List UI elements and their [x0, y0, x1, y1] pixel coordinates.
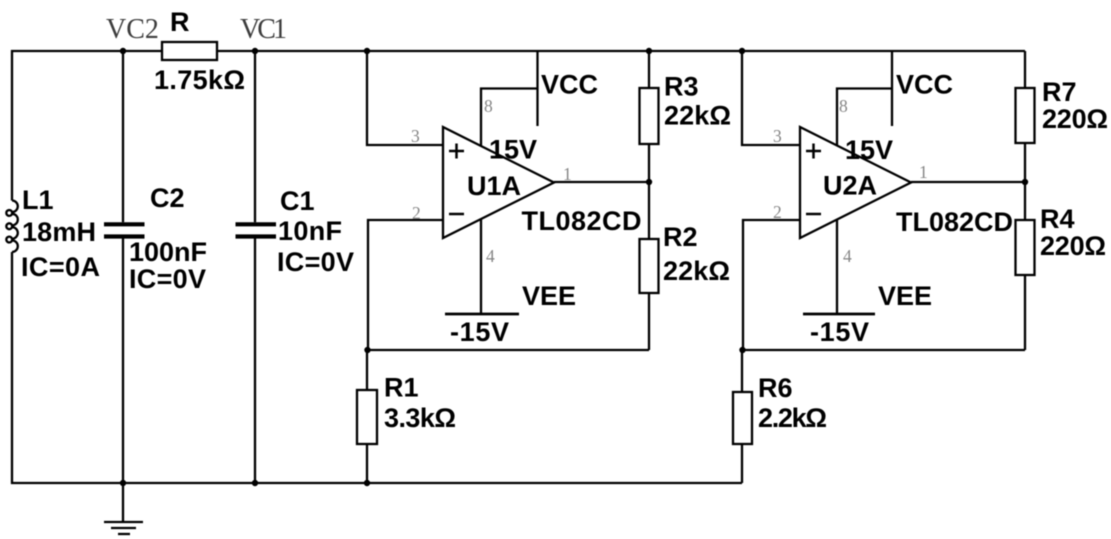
wire U2A pin3 net from top rail [742, 51, 800, 145]
svg-text:IC=0V: IC=0V [277, 247, 354, 277]
svg-text:22kΩ: 22kΩ [663, 256, 730, 286]
svg-text:3: 3 [773, 126, 782, 146]
wire U1A pin3 net from top rail [367, 51, 443, 145]
wire U1A VCC stub [536, 51, 538, 126]
svg-text:18mH: 18mH [22, 217, 96, 247]
U1A plus sign [449, 144, 464, 159]
svg-text:2: 2 [412, 203, 421, 223]
resistor R6 [741, 350, 743, 392]
svg-text:100nF: 100nF [129, 237, 207, 267]
wire U2A pin2 net [743, 220, 800, 350]
resistor R4 [1024, 182, 1026, 220]
svg-text:3.3kΩ: 3.3kΩ [384, 403, 456, 433]
junction VC1 top [252, 48, 258, 54]
wire U1A pin8 [481, 89, 538, 147]
wire node VC1 vertical [254, 51, 256, 222]
resistor R3 [648, 51, 650, 88]
svg-text:IC=0A: IC=0A [21, 252, 100, 282]
svg-text:2.2kΩ: 2.2kΩ [758, 403, 827, 433]
wire bottom rail [11, 482, 742, 484]
junction U2A pin3 top [739, 48, 745, 54]
wire U2A feedback bottom [742, 349, 1025, 351]
inductor L1 [6, 201, 17, 253]
wire U2A VCC stub [891, 51, 893, 126]
svg-text:15V: 15V [845, 135, 893, 165]
wire U2A output [911, 181, 1025, 183]
wire top rail [11, 50, 1025, 52]
junction R3 top [646, 48, 652, 54]
svg-text:4: 4 [843, 246, 852, 266]
svg-text:8: 8 [839, 96, 848, 116]
svg-text:VC1: VC1 [240, 14, 287, 45]
svg-text:C2: C2 [150, 183, 185, 213]
svg-text:VEE: VEE [878, 281, 932, 311]
resistor R2 [648, 182, 650, 239]
junction ground [120, 480, 126, 486]
junction VC2 top [120, 48, 126, 54]
svg-text:R7: R7 [1042, 77, 1077, 107]
svg-text:3: 3 [411, 126, 420, 146]
wire U1A feedback bottom [367, 349, 649, 351]
ground [104, 483, 143, 534]
svg-text:TL082CD: TL082CD [896, 207, 1013, 237]
junction U2A output node [1022, 179, 1028, 185]
svg-text:U1A: U1A [467, 171, 521, 201]
svg-text:TL082CD: TL082CD [522, 206, 642, 236]
svg-text:R2: R2 [663, 222, 698, 252]
svg-text:R4: R4 [1040, 204, 1075, 234]
svg-text:10nF: 10nF [278, 216, 342, 246]
svg-text:-15V: -15V [450, 317, 509, 347]
svg-text:1: 1 [563, 164, 572, 184]
U2A minus sign [806, 213, 821, 216]
svg-text:220Ω: 220Ω [1040, 231, 1106, 261]
junction U1A pin3 top [364, 48, 370, 54]
svg-text:R3: R3 [664, 72, 699, 102]
junction U2A feedback left [739, 347, 745, 353]
svg-text:1.75kΩ: 1.75kΩ [154, 65, 245, 95]
svg-text:8: 8 [484, 96, 493, 116]
svg-text:VEE: VEE [522, 281, 576, 311]
svg-text:2: 2 [773, 202, 782, 222]
wire U2A pin8 [837, 89, 892, 147]
power VEE bar U2A [803, 313, 875, 316]
svg-text:22kΩ: 22kΩ [664, 101, 731, 131]
wire U1A pin2 net [368, 220, 443, 350]
wire U2A pin4 [836, 219, 838, 314]
resistor R [162, 42, 217, 60]
wire left edge [11, 50, 13, 201]
junction VC1 bottom [252, 480, 258, 486]
junction U1A output node [646, 179, 652, 185]
svg-text:1: 1 [919, 162, 928, 182]
svg-text:L1: L1 [22, 185, 54, 215]
svg-text:-15V: -15V [810, 317, 869, 347]
svg-text:VCC: VCC [896, 70, 953, 100]
power VEE bar U1A [445, 313, 519, 316]
junction U1A feedback left [364, 347, 370, 353]
capacitor C1 [236, 224, 277, 236]
svg-text:15V: 15V [489, 135, 537, 165]
U1A minus sign [449, 213, 464, 216]
svg-text:220Ω: 220Ω [1042, 104, 1108, 134]
wire U1A output [554, 181, 649, 183]
svg-text:C1: C1 [280, 186, 315, 216]
svg-text:R6: R6 [758, 373, 793, 403]
resistor R1 [366, 350, 368, 390]
resistor R7 [1024, 51, 1026, 88]
svg-text:R1: R1 [384, 373, 419, 403]
wire U1A pin4 [480, 219, 482, 314]
wire node VC2 vertical [122, 51, 124, 222]
svg-text:VC2: VC2 [106, 14, 159, 45]
junction R1 bottom [364, 480, 370, 486]
capacitor C2 [104, 224, 145, 236]
U2A plus sign [806, 144, 821, 159]
svg-text:VCC: VCC [541, 70, 598, 100]
svg-text:U2A: U2A [823, 171, 877, 201]
op-amp U1A [443, 127, 554, 238]
svg-text:4: 4 [486, 246, 495, 266]
svg-text:R: R [170, 7, 190, 37]
svg-text:IC=0V: IC=0V [129, 264, 206, 294]
op-amp U2A [800, 127, 911, 238]
